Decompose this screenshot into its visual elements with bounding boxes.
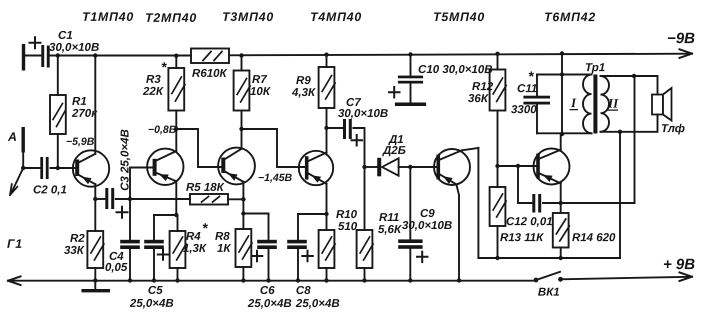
node: secondary top / feedback [632,74,636,78]
node: bottom rail R4 [175,278,179,282]
node: secondary bottom junction [618,130,622,134]
resistor R6 [191,49,229,64]
node: T4 emitter junction [324,212,328,216]
transistor T3 [218,129,255,199]
svg-text:С1: С1 [58,30,73,42]
capacitor C2 [25,157,75,179]
node: T1 emitter junction [93,197,97,201]
svg-text:22К: 22К [142,86,164,98]
node: rail junction R3 [174,54,178,58]
svg-text:С12 0,01: С12 0,01 [506,216,553,228]
wire: T6 base line [498,165,537,167]
node: bottom rail R8 [241,278,245,282]
node: R12 / R13 / T6 base [495,164,499,168]
capacitor C4 [120,199,140,281]
node: T2 collector / R3 [174,127,178,131]
svg-text:С2 0,1: С2 0,1 [33,184,67,196]
svg-text:R7: R7 [252,74,267,86]
capacitor C6 [243,214,276,281]
resistor R1 [50,56,66,169]
node: T2 emitter junction [174,213,178,217]
node: T3 emitter lower junction [241,211,245,215]
svg-text:R4: R4 [186,231,201,243]
node: C12 top [516,164,520,168]
node: rail junction R1 [56,53,60,57]
svg-text:С8: С8 [296,285,311,297]
svg-text:R1: R1 [72,96,87,108]
node: bottom rail C9 [408,278,412,282]
diode D1 [365,158,411,177]
resistor R10 [319,214,336,281]
resistor R5 [190,194,243,205]
wire: T3 collector to T4 base [242,129,306,167]
resistor R4 [170,215,187,281]
node: bottom rail C6 [266,278,270,282]
svg-text:R9: R9 [296,75,311,87]
wire: secondary top to phone [601,76,658,95]
svg-text:−9В: −9В [667,30,695,47]
node: bus junction R14 [559,256,563,260]
node: bottom rail R11 [362,278,366,282]
node: rail junction R7 [239,53,243,57]
svg-text:R11: R11 [379,212,399,224]
svg-text:3300: 3300 [511,104,537,116]
svg-text:36К: 36К [468,93,489,105]
node A junction [21,166,25,170]
svg-text:С11: С11 [517,83,537,95]
svg-text:ВК1: ВК1 [538,287,560,299]
node: T6 collector / primary bottom [560,132,564,136]
resistor R12 [490,54,507,166]
capacitor C3 [95,188,130,218]
svg-text:Д2Б: Д2Б [382,145,406,157]
svg-text:10К: 10К [250,86,271,98]
svg-text:II: II [607,96,619,111]
svg-text:33К: 33К [64,245,85,257]
node: T3 collector / R7 [239,127,243,131]
capacitor C5 [144,215,176,281]
transformer Tr1 [583,75,609,134]
svg-text:С3 25,0×4В: С3 25,0×4В [119,129,131,191]
node: T3 emitter / R5 [241,197,245,201]
node: rail junction Tr1 [560,51,564,55]
svg-text:Т2МП40: Т2МП40 [145,11,197,25]
node: bottom rail T5 emitter [457,278,461,282]
svg-text:R5 18К: R5 18К [186,182,225,194]
svg-text:25,0×4В: 25,0×4В [247,298,292,310]
capacitor C10 [389,55,426,107]
svg-text:0,05: 0,05 [105,262,128,274]
capacitor C8 [287,214,326,281]
node: bottom rail C5 [152,278,156,282]
wire: C3 node to R5 [130,198,190,200]
svg-text:Т6МП42: Т6МП42 [544,10,596,24]
node: C7 / D1 / R11 [362,165,366,169]
svg-text:С10 30,0×10В: С10 30,0×10В [418,64,493,76]
svg-text:R8: R8 [215,231,230,243]
svg-text:Г1: Г1 [7,237,23,251]
svg-text:*: * [202,220,208,236]
terminal X1 top pin [22,44,25,71]
top rail -9V wire [25,49,692,58]
svg-text:А: А [7,130,18,144]
svg-text:5,6К: 5,6К [378,224,402,236]
node: T4 collector / R9 / C7 [324,126,328,130]
svg-text:−0,8В: −0,8В [148,124,177,136]
resistor R13 [490,166,507,258]
wire: rail to transformer node [561,54,563,135]
svg-text:R2: R2 [70,233,85,245]
svg-text:R10: R10 [336,209,358,221]
resistor R9 [319,55,336,128]
node: C12 / T6 emitter [559,201,563,205]
svg-text:*: * [528,68,534,84]
node: rail junction R12 [495,52,499,56]
resistor R7 [234,56,251,130]
svg-text:С5: С5 [148,285,163,297]
svg-text:R3: R3 [146,74,161,86]
svg-text:25,0×4В: 25,0×4В [129,298,174,310]
svg-text:Т5МП40: Т5МП40 [433,10,485,24]
wire: T2 collector to T3 base [176,129,221,167]
node: D1 / C9 / T5 base [408,165,412,169]
svg-text:С9: С9 [420,208,435,220]
svg-text:Т1МП40: Т1МП40 [82,10,134,24]
transistor T2 [147,129,183,215]
svg-text:270к: 270к [71,108,98,120]
node: bus junction R13 [495,256,499,260]
svg-text:I: I [570,95,577,110]
capacitor C11 [523,75,591,134]
node: C11 top crossing [560,72,564,76]
resistor R2 [87,199,104,281]
svg-text:−5,9В: −5,9В [66,136,95,148]
node: rail junction T1 collector [93,53,97,57]
capacitor C9 [398,167,427,281]
node: R1/C2/base T1 [56,166,60,170]
transistor T4 [299,128,333,214]
node: bottom rail C8 [296,278,300,282]
svg-text:*: * [161,59,167,75]
node: bottom rail C4 [128,278,132,282]
bottom rail +9V wire [8,272,692,285]
svg-text:30,0×10В: 30,0×10В [338,108,388,120]
wire: secondary bottom to phone [601,115,658,132]
wire: feedback vertical to bus [619,132,621,258]
switch VK1 [534,272,563,283]
svg-text:−1,45В: −1,45В [258,172,293,184]
capacitor C7 [327,119,365,167]
transistor T6 [534,134,570,213]
svg-text:30,0×10В: 30,0×10В [402,220,452,232]
headphone Tlf [652,88,672,121]
svg-text:510: 510 [338,221,358,233]
svg-text:R13 11К: R13 11К [500,232,544,244]
transistor T1 [73,56,109,200]
svg-text:R14 620: R14 620 [572,232,616,244]
svg-text:С6: С6 [260,285,275,297]
node: bottom rail R10 [324,278,328,282]
svg-text:R610К: R610К [192,68,227,80]
svg-text:30,0×10В: 30,0×10В [49,42,99,54]
svg-text:25,0×4В: 25,0×4В [295,298,340,310]
resistor R8 [236,229,253,281]
resistor R14 [553,213,570,258]
capacitor C1 [30,37,50,67]
svg-text:1,3К: 1,3К [183,243,207,255]
resistor R11 [357,167,374,281]
transistor T5 [410,148,478,281]
wire: junction to T2 base [130,168,153,200]
svg-text:1К: 1К [217,243,231,255]
node: rail junction C10 [408,52,412,56]
node: bottom rail R2 [93,278,97,282]
capacitor C12 [518,166,635,213]
ground [82,281,111,293]
svg-text:Т3МП40: Т3МП40 [222,10,274,24]
wire: output stage bottom bus [478,257,620,259]
svg-text:Т4МП40: Т4МП40 [310,10,362,24]
svg-text:R12: R12 [472,81,494,93]
node: rail junction R9 [324,53,328,57]
resistor R3 [168,56,185,129]
node: C3/C4/base T2 junction [128,197,132,201]
terminal A (antenna) [22,127,25,168]
svg-text:+ 9В: + 9В [663,256,695,273]
svg-text:Тлф: Тлф [661,123,685,135]
wire: feedback from secondary top [634,76,636,203]
svg-text:Тр1: Тр1 [585,62,605,74]
svg-text:4,3К: 4,3К [291,87,316,99]
wire: arrow to common from A [10,168,23,195]
